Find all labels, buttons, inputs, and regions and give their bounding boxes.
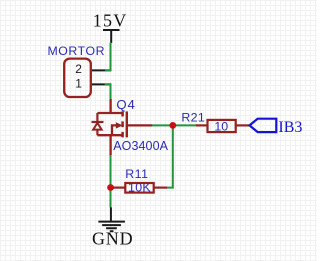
ground symbol stem [110,207,112,221]
svg-text:MORTOR: MORTOR [48,44,106,58]
transistor Q4 source bar [97,134,122,136]
svg-text:1: 1 [75,77,82,91]
transistor Q4 channel segments [121,111,124,137]
transistor Q4 body diode anode run [96,130,98,136]
resistor R21 left lead [196,124,207,126]
svg-text:10K: 10K [128,181,151,195]
transistor Q4 gate line [126,111,128,137]
wire Q4 gate to R21 [152,124,197,126]
port IB3 shape [250,119,277,132]
resistor R21 right lead [236,124,249,126]
resistor R11 left lead [113,187,125,189]
transistor Q4 drain bar [97,112,122,114]
svg-text:Q4: Q4 [116,97,135,112]
svg-text:GND: GND [92,228,133,248]
transistor Q4 body diode cathode run [96,113,98,121]
junction node gate/R21/R11 [169,122,176,129]
connector pin 1 [92,83,111,85]
transistor Q4 body diode cathode bar [92,121,104,123]
svg-text:IB3: IB3 [278,119,302,136]
svg-text:15V: 15V [93,11,128,31]
resistor R21 body [208,120,236,132]
transistor Q4 body diode triangle [93,123,101,130]
svg-text:10: 10 [214,120,228,134]
wire connector pin 1 to Q4 drain [105,84,111,99]
svg-text:R11: R11 [125,167,148,181]
svg-text:R21: R21 [181,111,205,125]
wire 15V to connector pin 2 [105,43,111,71]
wire gate node down to R11 [166,125,173,187]
svg-text:AO3400A: AO3400A [113,139,168,153]
transistor Q4 gate lead [128,124,153,126]
resistor R11 body [125,183,153,193]
power port 15V bar symbol [103,30,120,43]
transistor Q4 source arrow [116,122,123,128]
connector body [64,59,91,97]
svg-text:2: 2 [75,62,82,76]
transistor Q4 source lead [109,135,111,155]
resistor R11 right lead [154,187,167,189]
wire Q4 source to GND [110,155,112,208]
connector pin 2 [92,69,111,71]
transistor Q4 body tap [112,125,116,135]
junction node source/R11 [107,184,114,191]
ground symbol bars [98,222,125,232]
transistor Q4 drain lead [109,99,111,113]
